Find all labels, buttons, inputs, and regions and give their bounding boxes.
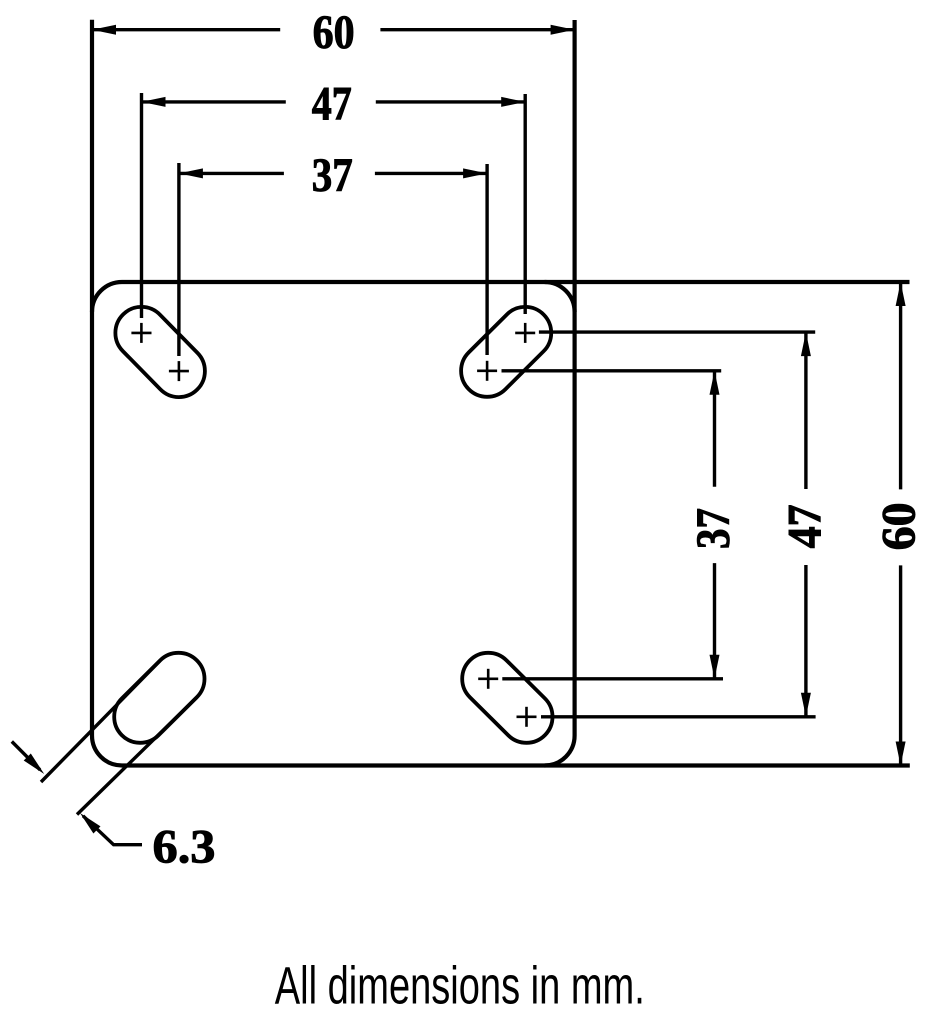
svg-text:60: 60	[872, 502, 925, 550]
extension line 37 right	[485, 164, 488, 355]
dimension 47 top arrows	[142, 97, 166, 107]
extension line 47 right	[524, 94, 527, 314]
svg-text:37: 37	[312, 149, 353, 202]
slot width extension line SE	[77, 697, 197, 814]
dimension 60 right line	[899, 282, 902, 766]
extension line BR outer cross to right	[541, 715, 816, 718]
dimension 60 right arrows	[896, 282, 906, 306]
plate outline (60x60 mounting plate, rounded corners)	[92, 20, 910, 766]
slot bottom-left	[103, 642, 215, 754]
extension line 47 left	[140, 93, 143, 318]
dimension 37 top line	[179, 172, 487, 175]
svg-text:6.3: 6.3	[153, 821, 216, 874]
center cross BR outer	[517, 707, 537, 727]
dimension 60 top line	[92, 28, 575, 31]
dimension 37 right line	[713, 371, 716, 679]
center cross TR inner	[477, 361, 497, 381]
dimension 37 right arrows	[710, 371, 720, 395]
slot width extension line NW	[41, 661, 160, 782]
svg-text:37: 37	[687, 508, 740, 549]
svg-text:60: 60	[313, 6, 355, 59]
dimension 6.3 arrow NW side	[12, 742, 40, 770]
center cross TL inner	[169, 361, 189, 381]
svg-text:47: 47	[778, 504, 831, 548]
extension line TR inner cross to right	[502, 369, 722, 372]
dimension 37 top arrows	[179, 168, 203, 178]
slot top-right	[450, 296, 562, 407]
dimension 47 right arrows	[801, 332, 811, 356]
extension line BR inner cross to right	[502, 677, 723, 680]
extension line 37 left	[177, 163, 180, 356]
extension line TR outer cross to right	[539, 330, 815, 333]
dimension 47 right line	[804, 332, 807, 717]
slot bottom-right	[451, 642, 563, 754]
dimension 6.3 leader	[83, 816, 142, 845]
slot top-left	[105, 296, 216, 408]
svg-text:47: 47	[312, 78, 352, 131]
center cross TR outer	[515, 323, 535, 343]
svg-text:All dimensions in mm.: All dimensions in mm.	[275, 956, 645, 1015]
center cross BR inner	[478, 669, 498, 689]
dimension 47 top line	[142, 100, 526, 103]
dimension 60 top arrows	[92, 25, 116, 35]
center cross TL outer	[131, 323, 151, 343]
